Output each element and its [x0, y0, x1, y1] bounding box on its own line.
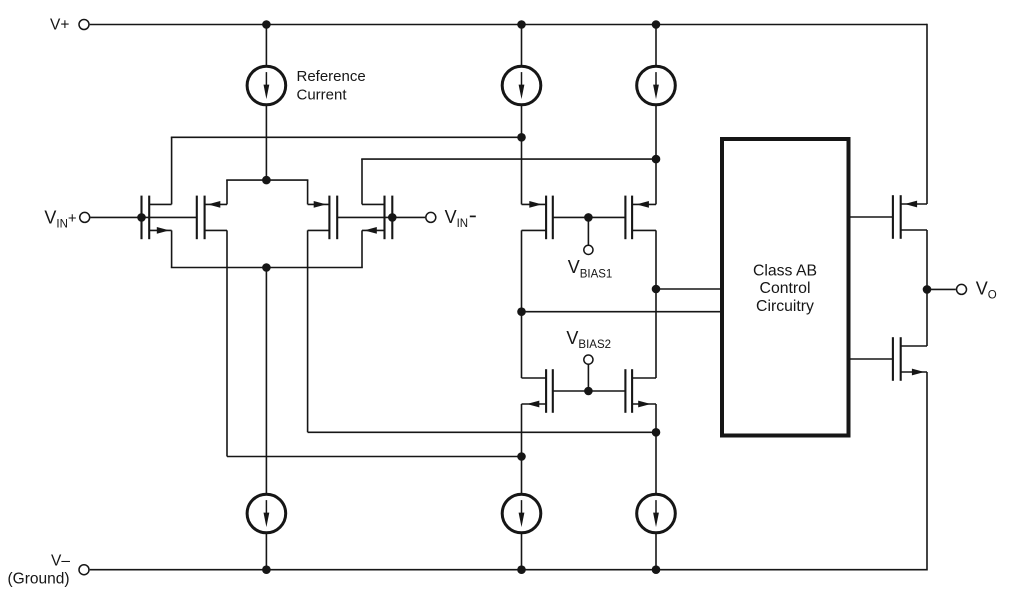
transistor M2 (input pair) [197, 196, 227, 240]
wire M4 source down [361, 230, 363, 267]
wire M3 source up [307, 180, 309, 204]
terminal VIN+ [80, 212, 90, 222]
wire tail to lower current source I4 [265, 268, 267, 495]
label V+ [50, 17, 69, 34]
node top rail / reference column [262, 20, 271, 29]
label VBIAS2 [566, 328, 611, 351]
terminal V+ [79, 20, 89, 30]
wire I4 to V- [265, 533, 267, 570]
transistor M1 (input pair) [142, 196, 172, 240]
wire M7 source down [521, 404, 523, 494]
svg-text:V+: V+ [50, 17, 69, 34]
label VO [976, 279, 997, 302]
V- (ground) rail [90, 569, 927, 571]
wire M5 source down to node [521, 230, 523, 378]
label Class AB Control Circuitry [753, 262, 817, 315]
wire tail node upper [226, 179, 308, 181]
wire I6 to V- [655, 533, 657, 570]
node top rail / mid-left column [517, 20, 526, 29]
wire M2 drain to M7 source (cross wire 2) [227, 456, 522, 458]
node V- rail / I5 [517, 565, 526, 574]
node M5/M7 column to Class AB [517, 307, 526, 316]
node VIN+ / M1 gate [137, 213, 146, 222]
svg-text:Class AB: Class AB [753, 262, 817, 279]
label (Ground) [8, 571, 70, 588]
wire VBIAS1 gate bus [553, 216, 626, 218]
node mid-right column / cross wire 1 [652, 428, 661, 437]
wire VBIAS2 stub [587, 364, 589, 391]
current source I1 (reference) [247, 66, 286, 105]
svg-text:V–: V– [51, 553, 70, 570]
wire right edge bottom [926, 372, 928, 571]
wire right edge top [926, 24, 928, 204]
label VIN- [445, 207, 476, 230]
wire output node to VO terminal [927, 288, 956, 290]
svg-text:Current: Current [297, 86, 348, 103]
node VBIAS1 [584, 213, 593, 222]
wire M2 source up [226, 180, 228, 204]
current source I3 [637, 66, 676, 105]
transistor M5 (upper cascode) [522, 196, 553, 240]
wire Class AB to M9 gate [850, 216, 893, 218]
svg-text:Control: Control [760, 280, 811, 297]
node mid-right column / M4 drain wire [652, 155, 661, 164]
label VBIAS1 [568, 257, 613, 280]
transistor M6 (upper cascode) [625, 196, 656, 240]
wire M9 drain down to output node [926, 230, 928, 346]
current source I2 [502, 66, 541, 105]
wire VBIAS1 stub [587, 217, 589, 245]
current source I4 [247, 494, 286, 533]
wire M1 drain to mid-left column [171, 136, 522, 138]
wire M1 drain up [171, 137, 173, 204]
wire I3 to M6 drain [655, 105, 657, 204]
wire tail node lower [171, 267, 363, 269]
svg-text:Circuitry: Circuitry [756, 298, 814, 315]
wire VIN+ to gates of M1,M2 [90, 216, 196, 218]
wire M3 drain to M8 source (cross wire 1) [308, 431, 656, 433]
wire Class AB to M10 gate [850, 358, 893, 360]
wire M3 drain down [307, 230, 309, 432]
wire M6 source down to node [655, 230, 657, 378]
wire M2 drain down [226, 230, 228, 456]
wire I1 to input tail node [265, 105, 267, 180]
transistor M4 (input pair) [362, 196, 392, 240]
wire M1 source down [171, 230, 173, 267]
transistor M10 (output NMOS) [893, 337, 927, 381]
wire node to Class AB box (lower tap) [522, 311, 721, 313]
svg-text:(Ground): (Ground) [8, 571, 70, 588]
node V- rail / I4 [262, 565, 271, 574]
wire V+ to I3 [655, 25, 657, 67]
wire M4 drain to mid-right column [361, 158, 656, 160]
node output [923, 285, 932, 294]
node mid-left column / M1 drain wire [517, 133, 526, 142]
transistor M8 (lower cascode) [625, 369, 656, 413]
terminal VBIAS2 [584, 355, 593, 364]
node tail lower [262, 263, 271, 272]
wire V+ to I1 [265, 25, 267, 67]
wire V+ to I2 [521, 25, 523, 67]
node top rail / mid-right column [652, 20, 661, 29]
label V- [51, 553, 70, 570]
wire gates M3,M4 to VIN- [337, 216, 425, 218]
current source I6 [637, 494, 676, 533]
transistor M3 (input pair) [308, 196, 338, 240]
wire M4 drain up [361, 159, 363, 204]
terminal VO [957, 284, 967, 294]
wire M8 source down [655, 404, 657, 494]
terminal VBIAS1 [584, 245, 593, 254]
label Reference Current [297, 68, 366, 103]
wire node to Class AB box (upper tap) [656, 288, 720, 290]
svg-text:Reference: Reference [297, 68, 366, 85]
terminal V- [79, 565, 89, 575]
transistor M7 (lower cascode) [522, 369, 553, 413]
terminal VIN- [426, 212, 436, 222]
Class AB control circuitry box [722, 139, 849, 436]
node VBIAS2 [584, 387, 593, 396]
label VIN+ [44, 207, 77, 230]
wire I5 to V- [521, 533, 523, 570]
node tail upper [262, 176, 271, 185]
node V- rail / I6 [652, 565, 661, 574]
node VIN- / M4 gate [388, 213, 397, 222]
wire I2 to M5 drain [521, 105, 523, 204]
current source I5 [502, 494, 541, 533]
node mid-left column / cross wire 2 [517, 452, 526, 461]
V+ rail [90, 24, 927, 26]
wire VBIAS2 gate bus [553, 390, 626, 392]
transistor M9 (output PMOS) [893, 195, 927, 239]
node M6/M8 column to Class AB [652, 285, 661, 294]
